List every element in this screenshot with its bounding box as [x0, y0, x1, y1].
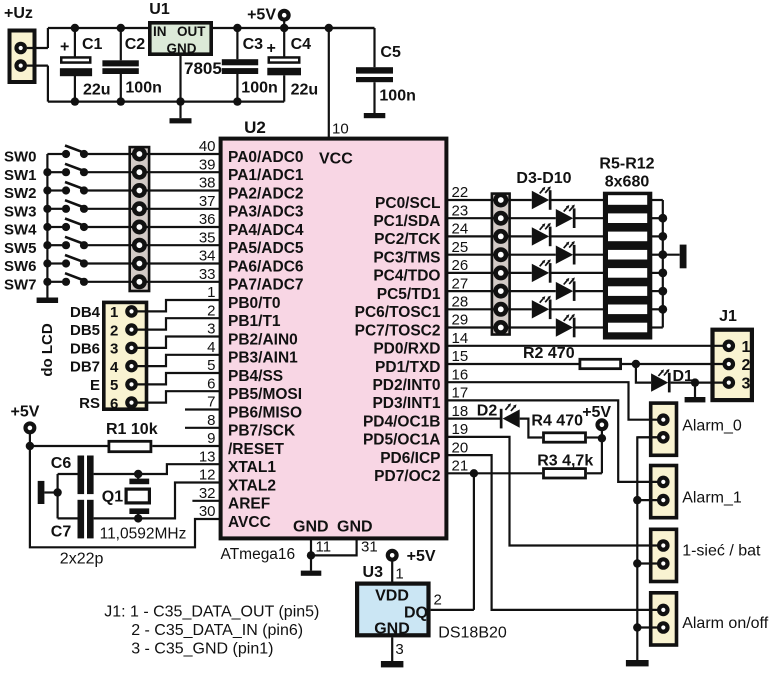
svg-text:GND: GND — [337, 519, 373, 536]
svg-text:U3: U3 — [363, 564, 384, 581]
svg-text:25: 25 — [452, 239, 469, 256]
svg-text:PD5/OC1A: PD5/OC1A — [363, 432, 441, 449]
svg-text:PA0/ADC0: PA0/ADC0 — [228, 149, 304, 166]
svg-text:33: 33 — [199, 266, 216, 283]
svg-text:2: 2 — [742, 357, 751, 374]
svg-text:GND: GND — [167, 41, 197, 56]
svg-text:PB1/T1: PB1/T1 — [228, 313, 281, 330]
svg-text:PB6/MISO: PB6/MISO — [228, 404, 302, 421]
svg-text:9: 9 — [207, 430, 215, 447]
svg-text:12: 12 — [199, 467, 216, 484]
svg-text:6: 6 — [207, 375, 215, 392]
svg-text:C1: C1 — [82, 36, 103, 53]
svg-text:PC2/TCK: PC2/TCK — [374, 231, 441, 248]
svg-text:XTAL1: XTAL1 — [228, 459, 276, 476]
svg-text:C5: C5 — [380, 44, 401, 61]
svg-text:SW3: SW3 — [4, 203, 37, 220]
svg-text:PA1/ADC1: PA1/ADC1 — [228, 167, 304, 184]
svg-text:DB6: DB6 — [70, 340, 100, 357]
svg-text:C4: C4 — [291, 36, 312, 53]
svg-text:PC6/TOSC1: PC6/TOSC1 — [355, 304, 441, 321]
svg-text:27: 27 — [452, 275, 469, 292]
svg-text:+5V: +5V — [11, 404, 40, 421]
svg-text:SW0: SW0 — [4, 149, 37, 166]
svg-text:24: 24 — [452, 221, 469, 238]
svg-text:Alarm_1: Alarm_1 — [682, 490, 742, 507]
svg-text:AVCC: AVCC — [228, 514, 271, 531]
svg-text:2: 2 — [110, 322, 118, 339]
svg-text:3: 3 — [207, 321, 215, 338]
svg-text:10: 10 — [332, 121, 349, 138]
svg-text:7805: 7805 — [184, 59, 222, 78]
svg-text:32: 32 — [199, 485, 216, 502]
svg-text:DB5: DB5 — [70, 322, 100, 339]
svg-text:PA2/ADC2: PA2/ADC2 — [228, 185, 304, 202]
svg-text:2: 2 — [434, 592, 442, 609]
svg-text:20: 20 — [452, 439, 469, 456]
svg-text:4: 4 — [207, 339, 215, 356]
svg-text:C2: C2 — [125, 36, 146, 53]
svg-text:15: 15 — [452, 348, 469, 365]
svg-text:PC1/SDA: PC1/SDA — [373, 213, 440, 230]
svg-text:J1: J1 — [719, 308, 737, 325]
svg-text:PD3/INT1: PD3/INT1 — [372, 395, 440, 412]
svg-text:C3: C3 — [243, 36, 264, 53]
svg-text:PA6/ADC6: PA6/ADC6 — [228, 258, 304, 275]
svg-text:PC4/TDO: PC4/TDO — [373, 268, 440, 285]
svg-text:VCC: VCC — [319, 151, 353, 168]
svg-text:ATmega16: ATmega16 — [221, 546, 296, 563]
svg-text:SW7: SW7 — [4, 276, 37, 293]
svg-text:34: 34 — [199, 248, 216, 265]
svg-text:35: 35 — [199, 229, 216, 246]
svg-text:40: 40 — [199, 138, 216, 155]
svg-text:21: 21 — [452, 458, 469, 475]
svg-text:GND: GND — [374, 621, 410, 638]
svg-text:PD2/INT0: PD2/INT0 — [372, 377, 440, 394]
svg-text:22u: 22u — [291, 82, 319, 99]
svg-text:PA5/ADC5: PA5/ADC5 — [228, 240, 304, 257]
svg-text:PC7/TOSC2: PC7/TOSC2 — [355, 322, 441, 339]
svg-text:4: 4 — [110, 359, 119, 376]
svg-text:XTAL2: XTAL2 — [228, 477, 276, 494]
svg-text:SW2: SW2 — [4, 185, 37, 202]
svg-text:37: 37 — [199, 193, 216, 210]
svg-text:+5V: +5V — [407, 548, 436, 565]
svg-text:5: 5 — [110, 377, 118, 394]
svg-text:+5V: +5V — [247, 7, 276, 24]
svg-text:PA7/ADC7: PA7/ADC7 — [228, 277, 304, 294]
svg-text:PD0/RXD: PD0/RXD — [373, 341, 440, 358]
svg-text:OUT: OUT — [177, 24, 206, 39]
svg-text:PB2/AIN0: PB2/AIN0 — [228, 331, 298, 348]
svg-text:11,0592MHz: 11,0592MHz — [100, 526, 187, 543]
svg-text:+: + — [267, 40, 276, 57]
svg-text:18: 18 — [452, 403, 469, 420]
svg-text:1-sieć / bat: 1-sieć / bat — [682, 543, 761, 560]
svg-text:R1 10k: R1 10k — [106, 421, 158, 438]
svg-text:31: 31 — [361, 539, 378, 556]
svg-text:22: 22 — [452, 184, 469, 201]
svg-text:PB5/MOSI: PB5/MOSI — [228, 386, 302, 403]
svg-text:J1: 1 - C35_DATA_OUT (pin5): J1: 1 - C35_DATA_OUT (pin5) — [104, 604, 319, 621]
svg-text:39: 39 — [199, 156, 216, 173]
svg-text:29: 29 — [452, 312, 469, 329]
svg-text:36: 36 — [199, 211, 216, 228]
svg-text:3: 3 — [110, 341, 118, 358]
svg-text:C7: C7 — [51, 524, 72, 541]
svg-text:PD7/OC2: PD7/OC2 — [374, 468, 440, 485]
svg-text:PD1/TXD: PD1/TXD — [375, 359, 440, 376]
svg-text:5: 5 — [207, 357, 215, 374]
svg-text:8: 8 — [207, 412, 215, 429]
svg-text:1: 1 — [110, 304, 118, 321]
svg-text:22u: 22u — [83, 82, 111, 99]
svg-text:14: 14 — [452, 330, 469, 347]
svg-text:E: E — [90, 377, 100, 394]
svg-text:17: 17 — [452, 385, 469, 402]
svg-text:IN: IN — [153, 24, 167, 39]
svg-text:GND: GND — [293, 519, 329, 536]
svg-text:Alarm on/off: Alarm on/off — [682, 615, 769, 632]
svg-text:23: 23 — [452, 202, 469, 219]
svg-text:+: + — [60, 39, 69, 56]
svg-text:DQ: DQ — [404, 605, 428, 622]
svg-text:SW5: SW5 — [4, 240, 37, 257]
svg-text:U1: U1 — [149, 1, 170, 18]
svg-text:D2: D2 — [477, 403, 498, 420]
svg-text:1: 1 — [742, 339, 751, 356]
svg-text:D3-D10: D3-D10 — [516, 170, 571, 187]
svg-text:PB4/SS: PB4/SS — [228, 368, 283, 385]
svg-text:1: 1 — [207, 284, 215, 301]
svg-text:2x22p: 2x22p — [60, 551, 104, 568]
svg-text:Q1: Q1 — [102, 489, 123, 506]
svg-text:3: 3 — [742, 376, 751, 393]
svg-text:19: 19 — [452, 421, 469, 438]
svg-text:+Uz: +Uz — [4, 5, 33, 22]
svg-text:13: 13 — [199, 448, 216, 465]
svg-text:30: 30 — [199, 503, 216, 520]
svg-text:6: 6 — [110, 395, 118, 412]
svg-text:38: 38 — [199, 175, 216, 192]
svg-text:VDD: VDD — [375, 588, 409, 605]
svg-text:RS: RS — [79, 395, 100, 412]
svg-text:26: 26 — [452, 257, 469, 274]
svg-text:3 - C35_GND (pin1): 3 - C35_GND (pin1) — [131, 641, 273, 658]
svg-text:U2: U2 — [244, 118, 266, 137]
svg-text:C6: C6 — [51, 455, 72, 472]
svg-text:/RESET: /RESET — [228, 441, 285, 458]
svg-text:SW4: SW4 — [4, 222, 37, 239]
svg-text:16: 16 — [452, 366, 469, 383]
svg-text:PD4/OC1B: PD4/OC1B — [363, 413, 441, 430]
svg-text:PC5/TD1: PC5/TD1 — [377, 286, 441, 303]
svg-text:do LCD: do LCD — [39, 323, 56, 376]
svg-text:8x680: 8x680 — [605, 174, 650, 191]
svg-text:R2 470: R2 470 — [523, 345, 575, 362]
svg-text:R4 470: R4 470 — [531, 413, 583, 430]
svg-text:PA3/ADC3: PA3/ADC3 — [228, 204, 304, 221]
svg-text:PB7/SCK: PB7/SCK — [228, 423, 296, 440]
svg-text:SW1: SW1 — [4, 167, 37, 184]
svg-text:R3 4,7k: R3 4,7k — [537, 453, 593, 470]
svg-text:PB0/T0: PB0/T0 — [228, 295, 281, 312]
svg-text:SW6: SW6 — [4, 258, 37, 275]
svg-text:11: 11 — [316, 539, 332, 556]
svg-text:AREF: AREF — [228, 496, 270, 513]
svg-text:R5-R12: R5-R12 — [599, 156, 654, 173]
svg-text:PC0/SCL: PC0/SCL — [375, 195, 440, 212]
svg-text:Alarm_0: Alarm_0 — [682, 418, 742, 435]
svg-text:PD6/ICP: PD6/ICP — [380, 450, 440, 467]
svg-text:28: 28 — [452, 294, 469, 311]
svg-text:DS18B20: DS18B20 — [438, 625, 507, 642]
svg-text:DB4: DB4 — [70, 304, 101, 321]
svg-text:100n: 100n — [241, 80, 277, 97]
svg-text:7: 7 — [207, 394, 215, 411]
svg-text:100n: 100n — [379, 88, 415, 105]
svg-text:PC3/TMS: PC3/TMS — [373, 250, 440, 267]
svg-text:2 - C35_DATA_IN (pin6): 2 - C35_DATA_IN (pin6) — [131, 622, 303, 639]
svg-text:+5V: +5V — [582, 404, 611, 421]
svg-text:DB7: DB7 — [70, 359, 100, 376]
svg-text:1: 1 — [395, 566, 403, 583]
svg-text:3: 3 — [395, 641, 403, 658]
svg-text:PA4/ADC4: PA4/ADC4 — [228, 222, 304, 239]
svg-text:100n: 100n — [125, 80, 161, 97]
svg-text:2: 2 — [207, 302, 215, 319]
svg-text:PB3/AIN1: PB3/AIN1 — [228, 350, 298, 367]
